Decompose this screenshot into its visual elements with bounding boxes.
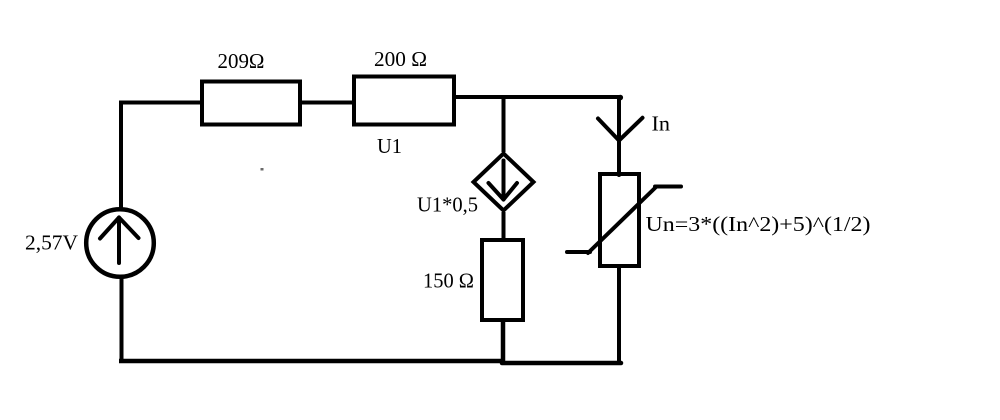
- value label 2,57V: [25, 231, 78, 255]
- wire right vertical (bottom): [617, 266, 621, 364]
- wire left vertical (bottom): [120, 277, 124, 362]
- value label 150 ohm: [423, 269, 474, 293]
- wire bottom horizontal: [119, 359, 504, 364]
- wire between R1 and R2: [300, 101, 354, 105]
- label U1: [377, 134, 402, 158]
- svg-text:200 Ω: 200 Ω: [374, 47, 427, 71]
- resistor R3 150 ohm body: [482, 240, 523, 320]
- equation label Un: [646, 212, 871, 236]
- stray dot: [261, 168, 264, 171]
- value label 209 ohm: [218, 49, 265, 73]
- wire from top wire down to dependent source: [502, 95, 506, 152]
- label In: [652, 112, 671, 136]
- voltage source V1 circle: [86, 209, 154, 277]
- wire dependent source to R3: [502, 212, 506, 240]
- svg-text:209Ω: 209Ω: [218, 49, 265, 73]
- wire R3 to bottom wire: [501, 320, 506, 363]
- value label 200 ohm: [374, 47, 427, 71]
- wire left vertical (top): [119, 101, 123, 210]
- junction dot at top-right corner: [618, 95, 624, 101]
- voltage source V1 arrow: [100, 218, 139, 264]
- svg-text:U1*0,5: U1*0,5: [417, 193, 478, 217]
- svg-text:In: In: [652, 112, 671, 136]
- svg-text:U1: U1: [377, 134, 402, 158]
- dependent current source U1*0,5 diamond: [474, 154, 534, 211]
- wire bottom horizontal (right segment): [502, 361, 621, 366]
- svg-text:150 Ω: 150 Ω: [423, 269, 474, 293]
- varistor diagonal stroke: [567, 187, 681, 254]
- svg-text:2,57V: 2,57V: [25, 231, 78, 255]
- resistor R2 200 ohm body: [354, 77, 454, 125]
- wire top-left horizontal: [119, 101, 202, 105]
- dependent source arrow (down): [489, 161, 518, 200]
- wire right vertical (top, through In arrow into varistor): [617, 96, 621, 177]
- svg-text:Un=3*((In^2)+5)^(1/2): Un=3*((In^2)+5)^(1/2): [646, 212, 871, 236]
- wire top-right horizontal: [454, 95, 621, 99]
- current arrow In (chevron): [598, 118, 643, 141]
- nonlinear resistor (varistor) body: [600, 174, 639, 266]
- resistor R1 209 ohm body: [202, 82, 300, 125]
- label U1*0,5: [417, 193, 478, 217]
